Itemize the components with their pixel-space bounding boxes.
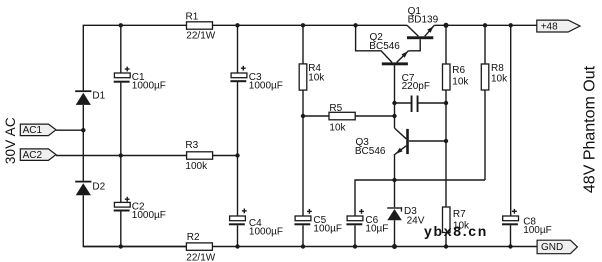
svg-text:1000µF: 1000µF	[249, 80, 283, 91]
svg-text:100µF: 100µF	[313, 224, 342, 235]
wire Q3 emitter to D3	[394, 154, 396, 207]
wire top rail left segment	[83, 25, 407, 90]
svg-text:30V AC: 30V AC	[3, 117, 18, 164]
node mid rail junctions	[119, 153, 240, 157]
wire D3 anode to ground	[394, 220, 396, 246]
svg-text:BC546: BC546	[369, 41, 400, 52]
svg-text:1000µF: 1000µF	[132, 81, 166, 92]
svg-text:R6: R6	[452, 65, 465, 76]
svg-text:R3: R3	[185, 140, 198, 151]
connector +48	[537, 20, 580, 32]
resistor R2	[83, 232, 215, 262]
node zener junction	[392, 178, 396, 182]
capacitor C2	[114, 197, 166, 221]
svg-text:10k: 10k	[491, 74, 508, 85]
svg-text:D1: D1	[92, 90, 105, 101]
resistor R1	[186, 12, 216, 42]
svg-text:22/1W: 22/1W	[186, 31, 215, 42]
svg-text:R5: R5	[329, 103, 342, 114]
wire Q1 base link	[409, 39, 421, 51]
capacitor C7	[402, 73, 430, 112]
connector AC1	[20, 124, 56, 136]
node bottom rail junctions	[119, 244, 513, 249]
resistor R4	[299, 63, 325, 90]
svg-text:R7: R7	[453, 209, 466, 220]
wire top rail right segment	[434, 24, 537, 26]
wire Q3 collector	[409, 140, 446, 142]
wire C2 branch	[120, 156, 122, 247]
transistor Q1	[407, 6, 439, 39]
wire zener node horizontal	[355, 180, 485, 216]
capacitor C8	[502, 209, 552, 236]
resistor R7	[443, 207, 471, 233]
svg-text:R1: R1	[186, 12, 199, 23]
node 30V AC input label	[3, 117, 18, 164]
svg-text:R2: R2	[187, 232, 200, 243]
connector GND	[537, 240, 577, 254]
svg-text:D2: D2	[92, 181, 105, 192]
resistor R3	[185, 140, 212, 172]
wire C1 branch	[120, 25, 122, 155]
zener diode D3	[387, 206, 425, 226]
svg-text:22/1W: 22/1W	[186, 252, 215, 262]
node 48V Phantom Out label	[582, 65, 599, 193]
node Q3 collector junction	[444, 139, 448, 143]
wire R7 bottom	[445, 233, 447, 247]
transistor Q3	[355, 128, 409, 157]
node watermark ybx8.cn	[424, 223, 488, 239]
resistor R6	[443, 64, 470, 90]
wire mid rail AC2	[56, 155, 238, 157]
connector AC2	[20, 149, 56, 161]
resistor R5	[329, 103, 355, 134]
wire C3 branch	[237, 25, 239, 155]
svg-text:10k: 10k	[452, 76, 469, 87]
transistor Q2	[369, 32, 408, 66]
svg-text:1000µF: 1000µF	[132, 210, 166, 221]
diode D1	[75, 90, 105, 105]
node AC1 junction	[81, 128, 85, 132]
svg-text:ybx8.cn: ybx8.cn	[424, 223, 488, 239]
wire C8 branch	[510, 25, 512, 246]
svg-text:10k: 10k	[308, 72, 325, 83]
wire Q2 base to Q3	[394, 65, 396, 128]
svg-text:1000µF: 1000µF	[249, 227, 283, 238]
diode D2	[75, 181, 105, 196]
capacitor C5	[294, 209, 342, 235]
resistor R8	[481, 63, 508, 90]
svg-text:100µF: 100µF	[523, 225, 552, 236]
svg-text:GND: GND	[541, 242, 563, 253]
wire R4 C5 branch	[302, 25, 304, 246]
svg-text:100k: 100k	[185, 161, 208, 172]
node C7 junctions	[392, 101, 448, 105]
wire C7 link	[395, 102, 447, 104]
wire bottom rail	[83, 195, 537, 246]
svg-text:R8: R8	[491, 63, 504, 74]
wire C6 bottom	[354, 225, 356, 246]
svg-text:10k: 10k	[329, 123, 346, 134]
node R5 junctions	[301, 114, 397, 118]
svg-text:+48: +48	[541, 22, 558, 33]
wire R6 branch	[445, 25, 447, 207]
wire C4 branch	[237, 156, 239, 247]
svg-text:BC546: BC546	[355, 146, 386, 157]
wire D1 anode to D2 cathode	[82, 105, 84, 181]
wire AC1 stub	[56, 129, 83, 131]
wire R8 branch	[484, 25, 486, 180]
svg-text:48V Phantom Out: 48V Phantom Out	[582, 65, 599, 193]
svg-text:10µF: 10µF	[365, 224, 388, 235]
capacitor C4	[229, 209, 283, 238]
capacitor C6	[346, 209, 388, 235]
svg-text:AC1: AC1	[23, 125, 43, 136]
wire Q2 collector path	[356, 25, 392, 62]
svg-text:220pF: 220pF	[402, 81, 430, 92]
capacitor C1	[114, 67, 166, 92]
svg-text:AC2: AC2	[23, 150, 43, 161]
svg-text:BD139: BD139	[408, 15, 439, 26]
svg-text:24V: 24V	[407, 215, 425, 226]
wire R5 link	[303, 115, 395, 117]
capacitor C3	[230, 66, 283, 92]
node top rail junctions	[119, 23, 513, 28]
